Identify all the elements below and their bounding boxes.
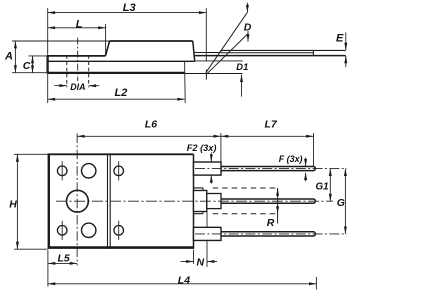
L3 right extension line [205, 8, 207, 61]
L dimension line [48, 27, 106, 29]
svg-text:L2: L2 [115, 87, 128, 99]
tab boundary line 1 [107, 154, 109, 248]
lead 2 stub [207, 194, 221, 209]
mold line thin extension to the right [195, 60, 243, 62]
body outline top edge [48, 153, 194, 155]
oblique end tick [205, 69, 207, 79]
svg-text:C: C [23, 60, 31, 72]
tick vertical hole BL [61, 221, 63, 240]
lead 2 / package horizontal centerline [56, 200, 333, 202]
svg-text:F2 (3x): F2 (3x) [187, 143, 217, 153]
A top extension line [12, 40, 110, 42]
E upper arrow stem [345, 33, 347, 51]
E top arrowhead [344, 43, 347, 50]
L4 dimension line [48, 283, 317, 285]
F2 down arrowhead [210, 154, 213, 161]
lead 1 centerline [195, 168, 347, 170]
bottom plane thin extension line [185, 73, 243, 75]
H top extension [14, 153, 48, 155]
svg-text:N: N [197, 257, 205, 269]
small hole bottom-left [57, 226, 67, 236]
H bottom arrowhead [16, 242, 19, 249]
A/C bottom extension line [12, 72, 48, 74]
svg-text:A: A [4, 51, 13, 63]
svg-text:G1: G1 [316, 181, 329, 192]
small hole top-right [114, 166, 124, 176]
G1 dimension line [329, 169, 331, 202]
arrowheads front view [16, 135, 347, 285]
L4 left extension [47, 250, 49, 287]
tick vertical hole TL [61, 161, 63, 180]
N right arrowhead [207, 260, 214, 263]
lead 3 centerline [195, 233, 347, 235]
svg-text:L6: L6 [145, 119, 157, 131]
A dimension line [14, 41, 16, 73]
N right arrow line [207, 261, 217, 263]
DIA right arrow line [89, 85, 100, 87]
F up arrowhead [304, 173, 307, 180]
oblique dimension line D1 [206, 34, 248, 75]
L2 right extension line [184, 62, 187, 103]
N left arrowhead [186, 260, 193, 263]
L5 dimension line [48, 262, 77, 264]
L2 left arrowhead [48, 98, 55, 101]
dimension/extension linework, front view [14, 133, 345, 290]
hidden hole edge (dashed) right [88, 55, 90, 87]
C top arrowhead [31, 56, 34, 63]
N right extension upper [206, 212, 208, 228]
L left arrowhead [48, 26, 55, 29]
D1 lower arrow stem [241, 75, 243, 97]
E bottom arrowhead [344, 56, 347, 63]
arrowheads side view [14, 5, 347, 101]
G bottom arrowhead [344, 227, 347, 234]
svg-text:F (3x): F (3x) [279, 154, 303, 164]
N right extension lower [206, 241, 208, 267]
lead (side view) top edge near body [195, 52, 221, 54]
oblique dimension line D [206, 12, 248, 72]
body outline left edge [48, 154, 50, 249]
package body side profile: left edge [46, 55, 48, 73]
package body side profile: body right edge (draft) [193, 41, 195, 61]
tick vertical hole TR [118, 161, 120, 180]
L6 left arrowhead [77, 135, 84, 138]
F2 upper arrow stem [210, 152, 212, 161]
L2 right arrowhead [177, 98, 184, 101]
L5 left arrowhead [48, 262, 55, 265]
L7 left arrowhead [221, 135, 228, 138]
G1 top arrowhead [329, 169, 332, 176]
package bottom edge [48, 72, 185, 74]
D1 arrow stem [247, 31, 249, 42]
F upper arrow stem [305, 158, 307, 167]
svg-text:D: D [244, 22, 252, 34]
N left arrow line [181, 261, 194, 263]
G top arrowhead [344, 169, 347, 176]
L2 dimension line [48, 98, 185, 100]
L5 right arrowhead [70, 262, 77, 265]
H dimension line [16, 154, 18, 249]
package body side profile: slope from tab to body top [105, 41, 109, 56]
C dimension line [32, 56, 34, 73]
D arrow stem [246, 3, 248, 13]
H top arrowhead [16, 154, 19, 161]
D1 lower up arrowhead [240, 75, 243, 82]
DIA right-pointing arrowhead [59, 84, 66, 87]
svg-text:DIA: DIA [70, 82, 85, 92]
L3 left arrowhead [48, 11, 55, 14]
svg-text:L5: L5 [58, 252, 70, 264]
DIA left arrow line [55, 85, 67, 87]
svg-text:L3: L3 [123, 2, 136, 14]
F2 up arrowhead [210, 175, 213, 182]
hidden die pad outline (dashed) bottom [213, 213, 278, 215]
vertical centerline through mounting hole [76, 134, 78, 266]
svg-text:L: L [76, 19, 83, 31]
dimension/extension linework, side view [12, 3, 346, 103]
tick vertical hole BR [118, 221, 120, 240]
F lower arrow stem [305, 173, 307, 181]
lead step [220, 50, 222, 52]
svg-text:E: E [336, 33, 344, 45]
lead mid edge [221, 52, 314, 54]
medium hole bottom [82, 223, 96, 237]
L7 right extension [313, 133, 315, 166]
lead 2 pin (capsule) [219, 199, 315, 203]
L6/L7 common extension [220, 133, 222, 162]
G dimension line [344, 169, 346, 234]
lead 1 stub [194, 162, 222, 175]
R bottom arrowhead [276, 206, 279, 213]
svg-text:R: R [267, 217, 275, 229]
hidden die pad outline (dashed) top [213, 187, 278, 189]
package body side profile: body top edge [110, 40, 193, 42]
small hole bottom-right [114, 226, 124, 236]
L right arrowhead [98, 26, 105, 29]
notch line above lead 2 [194, 188, 204, 191]
svg-text:L4: L4 [178, 274, 190, 286]
R dimension line [277, 188, 279, 224]
hidden hole edge (dashed) left [66, 55, 68, 87]
DIA left-pointing arrowhead [89, 84, 96, 87]
L3 dimension line [48, 12, 207, 14]
N left extension (body edge) [193, 250, 195, 264]
R top arrowhead [276, 188, 279, 195]
lead 2 step [194, 191, 207, 212]
body outline right edge [193, 154, 195, 249]
F down arrowhead [304, 159, 307, 166]
notch line below lead 2 [194, 212, 204, 214]
small hole center ticks [62, 161, 118, 240]
lead (side view) top edge outer [221, 49, 346, 51]
tab boundary line 2 [109, 154, 111, 248]
L6/L7 dimension line [77, 135, 313, 137]
C bottom arrowhead [31, 65, 34, 72]
G1 bottom arrowhead [329, 194, 332, 201]
C top extension line [29, 55, 48, 57]
small hole top-left [57, 166, 67, 176]
F2 lower arrow stem [210, 175, 212, 183]
svg-text:D1: D1 [236, 61, 248, 72]
svg-text:G: G [337, 197, 345, 209]
L4 right arrowhead [309, 282, 316, 285]
medium hole top [82, 164, 96, 178]
H bottom extension [14, 248, 48, 250]
E lower arrow stem [345, 56, 347, 67]
L4 left arrowhead [48, 282, 55, 285]
D1 arrowhead [247, 34, 250, 41]
L4 right extension [315, 277, 317, 290]
left edge extension line [47, 8, 49, 103]
package mold parting line [48, 60, 195, 62]
lead 3 stub [194, 227, 222, 240]
A top arrowhead [14, 41, 17, 48]
L extension line [105, 24, 107, 54]
hole centerline (dash-dot) [77, 38, 79, 81]
lead (side view) bottom edge [195, 55, 346, 57]
L7 right arrowhead [306, 135, 313, 138]
body outline bottom edge [48, 246, 194, 249]
package body side profile: tab top edge [48, 55, 106, 57]
mounting hole (large) [67, 190, 89, 212]
lead 1 pin (capsule) [219, 166, 315, 170]
L3 right arrowhead [199, 11, 206, 14]
svg-text:H: H [9, 198, 17, 210]
A bottom arrowhead [14, 65, 17, 72]
lead tick at crimp end [312, 50, 314, 55]
lead 3 pin (capsule) [219, 232, 315, 236]
D arrowhead [246, 5, 249, 12]
L6 right arrowhead [214, 135, 221, 138]
svg-text:L7: L7 [265, 119, 278, 131]
